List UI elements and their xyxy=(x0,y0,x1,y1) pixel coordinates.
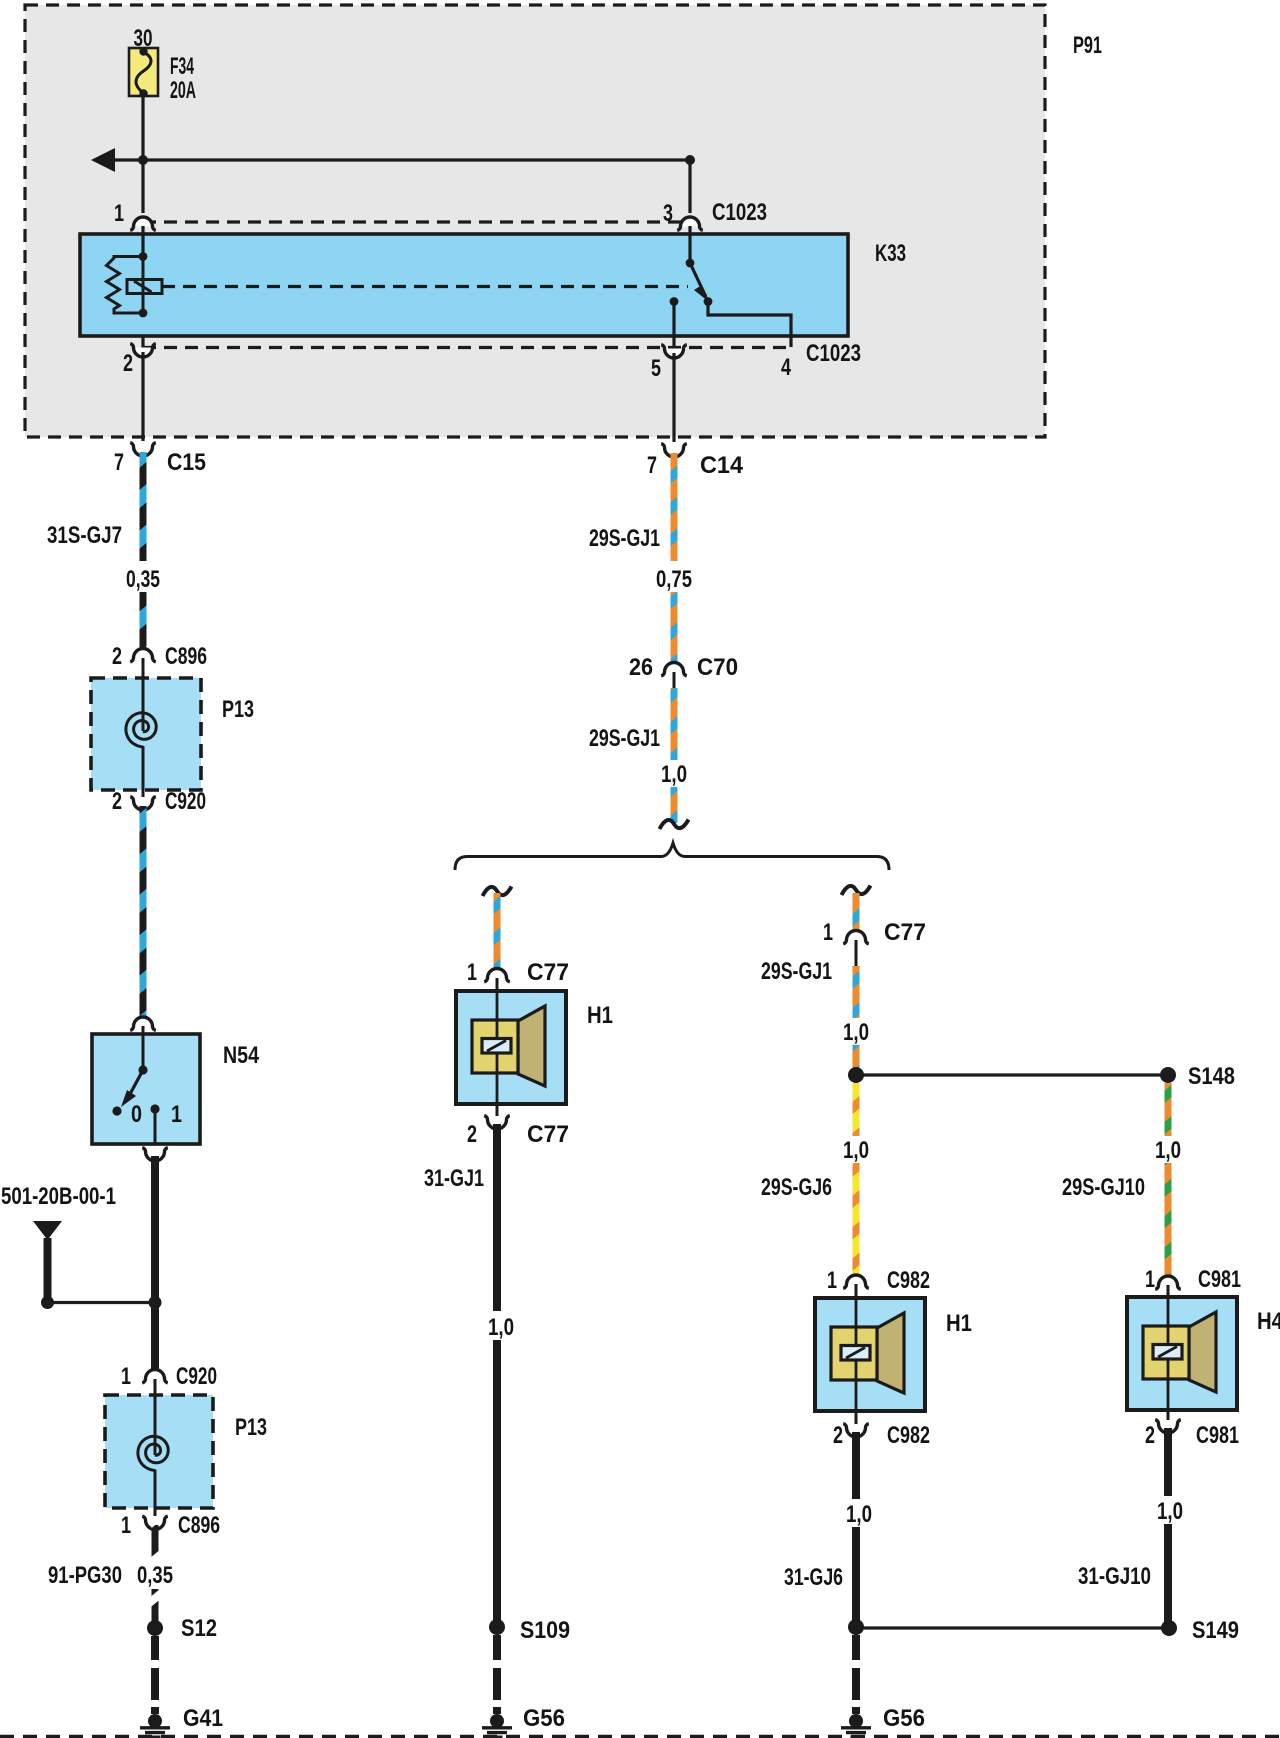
ECU box P91 xyxy=(25,5,1045,437)
svg-text:26: 26 xyxy=(629,654,653,681)
wire 29S-GJ1 tail xyxy=(671,787,678,823)
relay switch xyxy=(686,259,791,347)
ground G41 xyxy=(140,1714,170,1737)
coil actuation dashed line xyxy=(162,285,688,288)
svg-text:S148: S148 xyxy=(1188,1063,1235,1090)
labels 91-PG30 0,35 xyxy=(48,1562,173,1589)
wire 31-GJ10 lower xyxy=(1164,1524,1172,1628)
connector below N54 xyxy=(142,1148,168,1161)
svg-text:1,0: 1,0 xyxy=(843,1019,869,1046)
svg-text:C982: C982 xyxy=(887,1267,930,1294)
svg-text:31S-GJ7: 31S-GJ7 xyxy=(47,522,122,549)
bottom frame dashed line xyxy=(0,1735,1280,1738)
wire 31S-GJ7 lower xyxy=(140,592,147,654)
connector C77 right xyxy=(843,931,869,967)
svg-text:1,0: 1,0 xyxy=(661,761,687,788)
splice S109 xyxy=(489,1619,505,1635)
svg-text:C15: C15 xyxy=(167,449,206,476)
svg-text:4: 4 xyxy=(781,354,791,381)
splice S12 xyxy=(147,1620,163,1636)
wire 31-GJ1 lower xyxy=(493,1340,501,1627)
svg-text:C896: C896 xyxy=(165,643,207,670)
svg-text:C1023: C1023 xyxy=(712,199,767,226)
wire to S148 xyxy=(856,1073,1168,1076)
svg-text:C982: C982 xyxy=(887,1422,930,1449)
svg-text:P13: P13 xyxy=(222,696,254,723)
connector C920 upper xyxy=(130,790,156,810)
svg-text:C920: C920 xyxy=(165,788,206,815)
svg-text:31-GJ1: 31-GJ1 xyxy=(424,1165,484,1192)
pin 1 label C920 lower xyxy=(121,1363,217,1390)
connector at N54 xyxy=(130,1017,156,1030)
wire 29S-GJ10 upper xyxy=(1165,1083,1172,1136)
junction at fuse column xyxy=(138,155,148,165)
horn H1 front xyxy=(456,991,566,1104)
fuse F34 20A xyxy=(129,47,158,97)
pin 3 connector xyxy=(677,217,703,263)
break symbol left branch xyxy=(483,887,512,897)
wire 91-PG30 lower xyxy=(152,1589,159,1621)
svg-text:20A: 20A xyxy=(170,77,196,104)
connector C77 bottom xyxy=(484,1104,510,1129)
horn H1 rear xyxy=(815,1298,925,1411)
svg-text:G41: G41 xyxy=(183,1705,223,1732)
svg-text:C1023: C1023 xyxy=(806,340,861,367)
svg-text:501-20B-00-1: 501-20B-00-1 xyxy=(1,1183,116,1210)
svg-text:C77: C77 xyxy=(527,959,569,986)
svg-text:1: 1 xyxy=(467,959,477,986)
pin 1 label C77 right xyxy=(823,919,926,946)
svg-text:2: 2 xyxy=(123,350,133,377)
svg-text:H1: H1 xyxy=(587,1002,613,1029)
svg-text:G56: G56 xyxy=(523,1705,565,1732)
svg-text:1: 1 xyxy=(1145,1266,1155,1293)
ground G56 left xyxy=(482,1714,512,1737)
pin 7 label C15 xyxy=(114,449,206,476)
svg-text:5: 5 xyxy=(651,355,661,382)
svg-text:7: 7 xyxy=(114,449,124,476)
connector C1023 bottom dashed line xyxy=(143,346,791,349)
svg-text:1,0: 1,0 xyxy=(846,1501,872,1528)
pin 5 connector xyxy=(661,345,687,358)
wire fuse to pin 1 xyxy=(141,96,144,213)
svg-text:C896: C896 xyxy=(178,1512,220,1539)
pin 2 label C920 xyxy=(112,788,206,815)
wire N54 to C920 xyxy=(151,1156,159,1373)
pin 1 connector xyxy=(130,217,156,256)
svg-text:H4: H4 xyxy=(1257,1308,1280,1335)
svg-text:2: 2 xyxy=(112,643,122,670)
svg-text:S109: S109 xyxy=(520,1617,570,1644)
svg-text:C981: C981 xyxy=(1198,1266,1241,1293)
pin 2 label C896 xyxy=(112,643,207,670)
svg-text:2: 2 xyxy=(112,788,122,815)
switch position labels 0 1 xyxy=(131,1101,182,1128)
svg-text:S12: S12 xyxy=(181,1615,217,1642)
pin 7 label C14 xyxy=(647,452,744,479)
svg-text:31-GJ6: 31-GJ6 xyxy=(784,1564,843,1591)
svg-text:2: 2 xyxy=(1145,1422,1155,1449)
svg-text:0,75: 0,75 xyxy=(656,566,692,593)
wire 31-GJ1 upper xyxy=(493,1124,501,1311)
svg-text:P13: P13 xyxy=(235,1414,267,1441)
relay K33 body xyxy=(80,234,848,336)
svg-text:2: 2 xyxy=(467,1121,477,1148)
ref 501-20B-00-1 xyxy=(33,1221,155,1309)
cigarette lighter P13 upper xyxy=(91,658,201,790)
svg-text:3: 3 xyxy=(663,200,673,227)
splice S149 xyxy=(1161,1620,1177,1636)
switch N54 xyxy=(92,1026,200,1144)
wire 29S-GJ6 upper xyxy=(853,1083,860,1136)
svg-text:C981: C981 xyxy=(1196,1422,1239,1449)
connector C920 lower xyxy=(142,1370,168,1383)
wire 29S-GJ1 lower xyxy=(671,688,678,760)
connector C982 xyxy=(843,1275,869,1298)
svg-text:29S-GJ10: 29S-GJ10 xyxy=(1062,1174,1145,1201)
wire to S149 xyxy=(856,1626,1169,1629)
wire 29S-GJ10 lower xyxy=(1165,1163,1172,1277)
pin 2 label C981 bottom xyxy=(1145,1422,1239,1449)
pin 1 label C982 xyxy=(827,1267,930,1294)
wire 31S-GJ7 upper xyxy=(140,452,147,561)
wire 29S-GJ6 lower xyxy=(853,1163,860,1276)
label F34 20A xyxy=(170,53,196,104)
svg-text:P91: P91 xyxy=(1073,32,1102,59)
relay coil xyxy=(107,252,163,317)
wire 29S-GJ1 right lower xyxy=(853,1045,860,1071)
junction to S148 xyxy=(848,1067,864,1083)
svg-text:C77: C77 xyxy=(527,1121,569,1148)
wire 31-GJ6 upper xyxy=(852,1432,860,1499)
connector C1023 top dashed line xyxy=(143,220,690,223)
break symbol right branch xyxy=(842,886,871,896)
connector C981 bottom xyxy=(1155,1410,1181,1433)
wire pin5 to C14 xyxy=(672,353,675,442)
svg-text:1: 1 xyxy=(121,1363,131,1390)
splice S148 xyxy=(1160,1067,1176,1083)
wire 31-GJ6 lower xyxy=(852,1527,860,1627)
svg-text:0,35: 0,35 xyxy=(137,1562,173,1589)
ground G56 mid xyxy=(841,1714,871,1737)
connector C14 xyxy=(661,444,687,457)
junction to S149 xyxy=(848,1619,864,1635)
svg-text:0: 0 xyxy=(131,1101,142,1128)
arrow to other circuits xyxy=(91,148,690,172)
junction dot xyxy=(149,1296,162,1309)
wire 29S-GJ1 upper xyxy=(671,453,678,561)
svg-text:N54: N54 xyxy=(223,1042,260,1069)
svg-text:1: 1 xyxy=(823,919,833,946)
wire pin2 to C15 xyxy=(141,352,144,441)
svg-text:29S-GJ1: 29S-GJ1 xyxy=(589,525,660,552)
svg-text:1,0: 1,0 xyxy=(1155,1137,1181,1164)
cigarette lighter P13 lower xyxy=(105,1379,213,1508)
connector C15 xyxy=(130,443,156,456)
pin 2 label C77 bottom xyxy=(467,1121,569,1148)
wire 31-GJ10 upper xyxy=(1164,1428,1172,1496)
dashed wire to G56 left xyxy=(493,1635,501,1714)
svg-text:2: 2 xyxy=(833,1422,843,1449)
svg-text:7: 7 xyxy=(647,452,657,479)
svg-text:1: 1 xyxy=(121,1512,131,1539)
wire to pin 3 xyxy=(688,160,691,213)
svg-text:29S-GJ6: 29S-GJ6 xyxy=(761,1174,832,1201)
svg-text:K33: K33 xyxy=(875,240,906,267)
pin 2 label C982 bottom xyxy=(833,1422,930,1449)
pin 1 label C981 xyxy=(1145,1266,1241,1293)
svg-text:1: 1 xyxy=(171,1101,182,1128)
svg-text:1,0: 1,0 xyxy=(1157,1498,1183,1525)
svg-text:C77: C77 xyxy=(884,919,926,946)
wire 29S-GJ1 mid xyxy=(671,592,678,663)
connector C982 bottom xyxy=(843,1411,869,1437)
svg-text:F34: F34 xyxy=(170,53,194,80)
svg-text:29S-GJ1: 29S-GJ1 xyxy=(589,725,660,752)
pin 1 label C77 xyxy=(467,959,569,986)
connector C70 xyxy=(661,663,687,689)
pin 2 connector xyxy=(130,336,156,357)
svg-text:1: 1 xyxy=(827,1267,837,1294)
wire 29S-GJ1 branch xyxy=(494,893,501,969)
svg-text:G56: G56 xyxy=(883,1705,925,1732)
connector C981 xyxy=(1155,1276,1181,1297)
svg-text:C14: C14 xyxy=(700,452,744,479)
connector C896 xyxy=(130,649,156,662)
wire 29S-GJ1 right upper xyxy=(853,966,860,1018)
svg-text:1: 1 xyxy=(114,200,124,227)
wire 91-PG30 upper xyxy=(152,1525,159,1561)
pin 1 label C896 lower xyxy=(121,1512,220,1539)
harness brace xyxy=(455,843,889,870)
junction above pin 3 xyxy=(685,155,695,165)
horn H4 xyxy=(1127,1297,1237,1410)
svg-text:S149: S149 xyxy=(1192,1617,1239,1644)
svg-text:1,0: 1,0 xyxy=(488,1314,514,1341)
dashed wire to G41 xyxy=(151,1636,159,1714)
svg-text:C70: C70 xyxy=(697,654,738,681)
break symbol xyxy=(660,820,689,830)
wire 29S-GJ1 right stub xyxy=(853,893,860,931)
svg-text:C920: C920 xyxy=(176,1363,217,1390)
svg-text:1,0: 1,0 xyxy=(843,1137,869,1164)
connector C896 lower xyxy=(142,1508,168,1530)
connector C77 top xyxy=(484,969,510,992)
svg-text:0,35: 0,35 xyxy=(126,566,160,593)
wire 31S-GJ7 to N54 xyxy=(140,806,147,1017)
pin 26 label C70 xyxy=(629,654,738,681)
svg-text:H1: H1 xyxy=(946,1310,972,1337)
svg-text:31-GJ10: 31-GJ10 xyxy=(1078,1563,1151,1590)
svg-text:29S-GJ1: 29S-GJ1 xyxy=(761,958,832,985)
pin 5 stub xyxy=(670,297,679,347)
svg-text:91-PG30: 91-PG30 xyxy=(48,1562,122,1589)
dashed wire to G56 mid xyxy=(852,1635,860,1714)
